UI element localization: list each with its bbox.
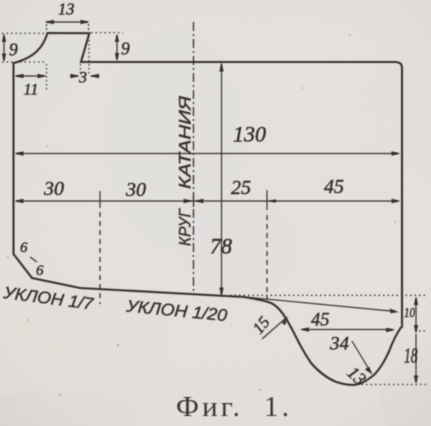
dimension row 30/30/25/45 line <box>16 190 398 210</box>
dimension 45 flange line <box>302 329 393 331</box>
leader 15 <box>262 318 286 339</box>
vertical dimension 78 line <box>221 64 223 295</box>
dimension 9 left line <box>3 35 5 61</box>
arrows 78 <box>219 63 223 72</box>
dotted ref line top-left at tab level <box>2 32 46 34</box>
dimension 18 line <box>415 334 417 382</box>
arrows 9 right <box>115 34 119 43</box>
leader 34/13 <box>352 341 370 371</box>
dimension 9 right line <box>116 36 118 60</box>
axis line (rolling circle) <box>193 22 195 292</box>
svg-text:6: 6 <box>20 240 28 256</box>
svg-text:45: 45 <box>324 176 344 198</box>
svg-text:Фиг. 1.: Фиг. 1. <box>176 391 292 423</box>
small arrow at x267 row2 <box>268 199 276 203</box>
svg-text:9: 9 <box>9 40 18 60</box>
svg-text:25: 25 <box>231 177 251 199</box>
speckles <box>7 34 396 396</box>
thin flange chord line <box>245 297 396 312</box>
arrows row2 at axis <box>184 199 193 203</box>
svg-text:30: 30 <box>43 178 64 200</box>
dimension 11 line <box>16 64 47 90</box>
dotted tread level line <box>230 294 428 296</box>
arrow leader 34/13 <box>365 367 373 375</box>
dotted ref line right of tab <box>91 32 123 34</box>
small tick right of 18 top <box>419 330 428 332</box>
svg-text:3: 3 <box>78 70 87 87</box>
dimension 130 line <box>16 153 398 155</box>
arrows row2 ends <box>15 199 24 203</box>
arrows 11 <box>15 74 24 78</box>
dotted ref line at y62 left <box>2 61 46 63</box>
svg-text:45: 45 <box>311 311 330 331</box>
arrows 45 flange <box>300 327 309 331</box>
arrow thin chord <box>390 309 399 314</box>
svg-text:КАТАНИЯ: КАТАНИЯ <box>177 95 195 189</box>
extension dashed x=267 <box>266 215 268 300</box>
svg-text:34: 34 <box>329 334 350 355</box>
dimension 10 line <box>415 298 417 332</box>
svg-text:18: 18 <box>404 344 418 368</box>
tick between 6s <box>30 257 37 262</box>
dimension 3 arrows <box>70 36 99 76</box>
arrows 10 <box>414 297 418 306</box>
svg-text:13: 13 <box>58 0 75 19</box>
svg-text:10: 10 <box>404 306 415 321</box>
svg-text:9: 9 <box>121 39 130 59</box>
arrows 130 <box>15 151 24 155</box>
svg-text:130: 130 <box>233 122 266 147</box>
profile outline <box>14 33 403 385</box>
svg-text:6: 6 <box>36 263 44 279</box>
svg-text:КРУГ: КРУГ <box>177 208 195 246</box>
arrows 9 left <box>2 34 6 43</box>
svg-text:78: 78 <box>210 234 232 259</box>
arrows 13 dim <box>45 20 54 24</box>
bottom dotted line <box>348 384 429 386</box>
svg-text:11: 11 <box>24 82 39 99</box>
extension dashed x=100 <box>99 212 101 304</box>
arrow 18 bottom <box>414 376 418 385</box>
arrows 3 (inward) <box>71 74 80 78</box>
arrow leader 15 <box>282 316 289 325</box>
svg-text:30: 30 <box>125 179 146 201</box>
dimension 13 line <box>46 22 89 31</box>
